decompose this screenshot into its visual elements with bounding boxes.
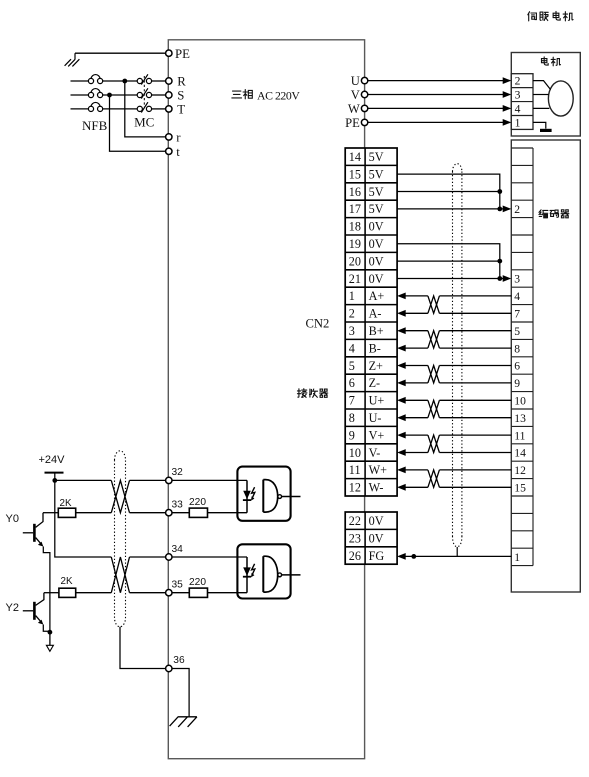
terminal S: [166, 92, 172, 98]
svg-text:Y0: Y0: [6, 513, 19, 525]
svg-text:0V: 0V: [369, 272, 384, 286]
svg-text:Y2: Y2: [6, 602, 19, 614]
wire 35 to R220: [172, 592, 189, 594]
encoder pin cells: [511, 147, 533, 149]
ground (mains earth): [74, 53, 76, 59]
servo drive unit box: [168, 40, 364, 759]
svg-text:CN2: CN2: [306, 317, 330, 331]
contactor MC pole S: [137, 92, 142, 97]
svg-text:0V: 0V: [369, 531, 384, 545]
wire pair to encoder 7/8: [439, 399, 511, 401]
twisted pair crossover 32/33: [111, 480, 129, 512]
svg-text:0V: 0V: [369, 220, 384, 234]
label 伺服电机: [528, 12, 537, 21]
wire t feed: [110, 95, 166, 151]
svg-text:5V: 5V: [369, 185, 384, 199]
svg-text:1: 1: [349, 289, 355, 303]
svg-text:34: 34: [172, 544, 184, 555]
wire MC to terminal T: [152, 108, 166, 110]
svg-text:0V: 0V: [369, 237, 384, 251]
junction on R: [122, 79, 127, 84]
breaker NFB pole R: [88, 78, 93, 83]
resistor 2K (Y0): [58, 508, 75, 517]
terminal 32: [166, 477, 172, 483]
svg-text:13: 13: [514, 412, 526, 425]
svg-text:W-: W-: [369, 481, 384, 495]
svg-text:MC: MC: [134, 115, 154, 130]
optocoupler U1: [237, 467, 290, 521]
junction FG: [411, 554, 416, 559]
svg-text:220: 220: [189, 577, 206, 588]
svg-text:0V: 0V: [369, 514, 384, 528]
twisted pair crossover 1/2: [428, 296, 440, 313]
terminal R: [166, 78, 172, 84]
wire 2K to twist (35): [76, 592, 112, 594]
svg-text:23: 23: [349, 531, 361, 545]
wire 35 right: [130, 592, 166, 594]
contactor MC pole R: [137, 78, 142, 83]
wire phase R segment: [71, 80, 89, 82]
svg-text:32: 32: [172, 467, 184, 478]
svg-text:19: 19: [349, 237, 361, 251]
breaker NFB pole S: [88, 92, 93, 97]
wire pair to encoder 1/2: [439, 295, 511, 297]
svg-text:W: W: [348, 102, 360, 116]
svg-text:NFB: NFB: [82, 118, 108, 133]
svg-text:6: 6: [349, 376, 355, 390]
twisted pair crossover 11/12: [428, 470, 440, 487]
wire signal pair rows 7/8: [397, 397, 406, 404]
svg-text:10: 10: [514, 395, 526, 408]
resistor 220 (opto2): [189, 588, 207, 597]
wire Y2 emitter: [43, 625, 50, 632]
svg-text:U: U: [351, 74, 360, 88]
svg-text:A+: A+: [369, 289, 385, 303]
svg-text:20: 20: [349, 254, 361, 268]
wire NFB to MC S: [103, 94, 138, 96]
svg-text:35: 35: [172, 579, 184, 590]
svg-text:21: 21: [349, 272, 361, 286]
wire pair to encoder 9/10: [439, 434, 511, 436]
wire 33 right: [130, 512, 166, 514]
svg-text:15: 15: [349, 167, 361, 181]
wire 0V bus: [397, 244, 500, 279]
svg-text:A-: A-: [369, 307, 382, 321]
svg-text:22: 22: [349, 514, 361, 528]
svg-text:0V: 0V: [369, 254, 384, 268]
wire pin2 to motor: [533, 81, 551, 90]
svg-text:17: 17: [349, 202, 361, 216]
svg-text:r: r: [176, 131, 181, 145]
wire NFB to MC R: [103, 80, 138, 82]
transistor Q2 (Y2) base wire: [23, 610, 33, 612]
motor winding circle: [548, 81, 573, 116]
svg-text:W+: W+: [369, 463, 388, 477]
wire V to motor: [368, 94, 504, 96]
wire FG: [406, 555, 512, 557]
wire R220 to opto1: [208, 512, 248, 514]
svg-text:26: 26: [349, 549, 361, 563]
terminal T: [166, 106, 172, 112]
wire pair to encoder 11/12: [439, 469, 511, 471]
terminal 33: [166, 510, 172, 516]
svg-text:2K: 2K: [60, 498, 72, 509]
wire 34 to opto2: [172, 556, 247, 558]
svg-text:14: 14: [514, 447, 526, 460]
terminal V (drive): [361, 91, 367, 97]
wire pair to encoder 5/6: [439, 365, 511, 367]
terminal t: [166, 148, 172, 154]
wire 32 to opto1: [172, 479, 247, 481]
terminal 34: [166, 554, 172, 560]
junction +24V: [52, 478, 57, 483]
cable shield (I/O, dashed): [115, 451, 126, 627]
svg-text:6: 6: [514, 360, 520, 373]
svg-text:PE: PE: [175, 47, 190, 61]
wire 5V bus: [397, 174, 500, 209]
breaker NFB pole T: [88, 106, 93, 111]
svg-text:5V: 5V: [369, 202, 384, 216]
wire phase T segment: [71, 108, 89, 110]
svg-text:12: 12: [349, 481, 361, 495]
wire W to motor: [368, 107, 504, 109]
twisted pair crossover 3/4: [428, 331, 440, 348]
wire U to motor: [368, 80, 504, 82]
wire 32 right: [130, 479, 166, 481]
twisted pair crossover 5/6: [428, 366, 440, 383]
junction 5V a: [497, 189, 502, 194]
encoder box: [511, 140, 580, 592]
svg-text:36: 36: [173, 655, 185, 666]
label 编码器: [539, 210, 548, 218]
ground (signal, inside drive): [178, 716, 197, 718]
wire MC to terminal R: [152, 80, 166, 82]
wire MC to terminal S: [152, 94, 166, 96]
transistor Q1 (Y0) base wire: [23, 532, 33, 534]
terminal 35: [166, 590, 172, 596]
svg-text:3: 3: [514, 273, 520, 286]
svg-text:4: 4: [514, 290, 520, 303]
MC linkage dashed: [143, 76, 145, 107]
wire PE to motor: [368, 121, 504, 123]
svg-text:PE: PE: [345, 116, 360, 130]
wire 36 internal ground: [172, 669, 189, 717]
twisted pair crossover 9/10: [428, 435, 440, 452]
wire signal pair rows 1/2: [397, 293, 406, 300]
svg-text:2: 2: [349, 307, 355, 321]
svg-text:8: 8: [514, 342, 520, 355]
label 接收器: [297, 389, 307, 398]
wire +24V feed: [55, 473, 112, 557]
svg-text:U-: U-: [369, 411, 382, 425]
wire pair to encoder 3/4: [439, 330, 511, 332]
wire 33 to R220: [172, 512, 189, 514]
wire r feed: [125, 81, 166, 137]
svg-text:33: 33: [172, 500, 184, 511]
junction on S: [107, 93, 112, 98]
terminal r: [166, 134, 172, 140]
terminal 36: [166, 665, 172, 671]
cable shield (encoder, dashed): [453, 164, 462, 172]
connector CN2 terminal table: [345, 148, 397, 496]
svg-text:15: 15: [514, 482, 526, 495]
junction emitters: [48, 630, 53, 635]
junction 0V a: [497, 259, 502, 264]
motor pin block: [511, 74, 533, 130]
svg-text:1: 1: [514, 551, 520, 564]
wire 32 left: [55, 479, 112, 481]
svg-text:Z-: Z-: [369, 376, 381, 390]
svg-text:B-: B-: [369, 341, 381, 355]
motor box: [511, 53, 580, 137]
junction 5V b: [497, 207, 502, 212]
wire shield drain: [456, 547, 458, 556]
junction 0V b: [497, 276, 502, 281]
wire 2K to twist: [76, 512, 112, 514]
terminal U (drive): [361, 77, 367, 83]
svg-text:R: R: [177, 75, 186, 89]
svg-text:4: 4: [515, 103, 521, 116]
twisted pair crossover 7/8: [428, 400, 440, 417]
motor frame ground: [533, 122, 546, 128]
svg-text:FG: FG: [369, 549, 385, 563]
resistor 2K (Y2): [59, 588, 76, 597]
svg-text:AC 220V: AC 220V: [257, 88, 300, 102]
terminal PE (drive): [166, 50, 172, 56]
wire arrow to encoder pin2: [500, 208, 504, 210]
svg-text:B+: B+: [369, 324, 384, 338]
wire arrow to encoder pin3: [500, 278, 504, 280]
svg-text:9: 9: [514, 377, 520, 390]
wire to common arrow: [49, 632, 51, 646]
svg-text:+24V: +24V: [39, 454, 66, 466]
svg-text:14: 14: [349, 150, 361, 164]
svg-text:2: 2: [514, 203, 520, 216]
wire shield to 36: [120, 627, 166, 669]
svg-text:U+: U+: [369, 394, 385, 408]
svg-text:2: 2: [515, 75, 521, 88]
svg-text:T: T: [177, 103, 185, 117]
svg-text:2K: 2K: [61, 576, 73, 587]
svg-text:5: 5: [349, 359, 355, 373]
resistor 220 (opto1): [189, 508, 207, 517]
wire signal pair rows 3/4: [397, 327, 406, 334]
svg-text:5V: 5V: [369, 150, 384, 164]
label 三相 AC 220V: [232, 91, 242, 98]
svg-text:7: 7: [514, 308, 520, 321]
wire pin4 to motor: [533, 107, 549, 109]
svg-text:4: 4: [349, 341, 355, 355]
wire signal pair rows 11/12: [397, 467, 406, 474]
svg-text:1: 1: [515, 116, 521, 129]
optocoupler U2: [237, 544, 290, 598]
contactor MC pole T: [137, 106, 142, 111]
twisted pair crossover 34/35: [111, 557, 129, 593]
svg-text:S: S: [177, 89, 184, 103]
svg-text:3: 3: [515, 89, 521, 102]
power rail +24V bar: [45, 472, 64, 474]
wire pin3 to motor: [533, 94, 549, 96]
svg-text:16: 16: [349, 185, 361, 199]
wire NFB to MC T: [103, 108, 138, 110]
wire 34 right: [130, 556, 166, 558]
wire phase S segment: [71, 94, 89, 96]
svg-text:220: 220: [189, 497, 206, 508]
svg-text:5V: 5V: [369, 167, 384, 181]
wire signal pair rows 5/6: [397, 362, 406, 369]
svg-text:t: t: [176, 145, 180, 159]
svg-text:5: 5: [514, 325, 520, 338]
svg-text:9: 9: [349, 428, 355, 442]
svg-text:V-: V-: [369, 446, 381, 460]
transistor Q1 (Y0): [33, 524, 36, 542]
svg-text:18: 18: [349, 220, 361, 234]
wire Y0 emitter down: [43, 547, 50, 633]
common (open arrow): [46, 645, 53, 651]
svg-text:11: 11: [514, 429, 525, 442]
wire R220 to opto2: [208, 592, 248, 594]
wire signal pair rows 9/10: [397, 432, 406, 439]
svg-text:7: 7: [349, 394, 355, 408]
wire Y2 collector to 2K: [44, 592, 59, 594]
wire Y0 collector to 2K: [43, 512, 58, 514]
label 电机: [541, 57, 548, 65]
CN2 ground terminal table: [345, 512, 397, 564]
svg-text:8: 8: [349, 411, 355, 425]
svg-text:V: V: [351, 88, 360, 102]
svg-text:12: 12: [514, 464, 526, 477]
svg-text:10: 10: [349, 446, 361, 460]
terminal PE (drive): [361, 119, 367, 125]
transistor Q2 (Y2): [33, 602, 36, 620]
wire PE mains: [75, 52, 166, 54]
svg-text:V+: V+: [369, 428, 385, 442]
svg-text:3: 3: [349, 324, 355, 338]
svg-text:11: 11: [349, 463, 361, 477]
terminal W (drive): [361, 105, 367, 111]
svg-text:Z+: Z+: [369, 359, 383, 373]
